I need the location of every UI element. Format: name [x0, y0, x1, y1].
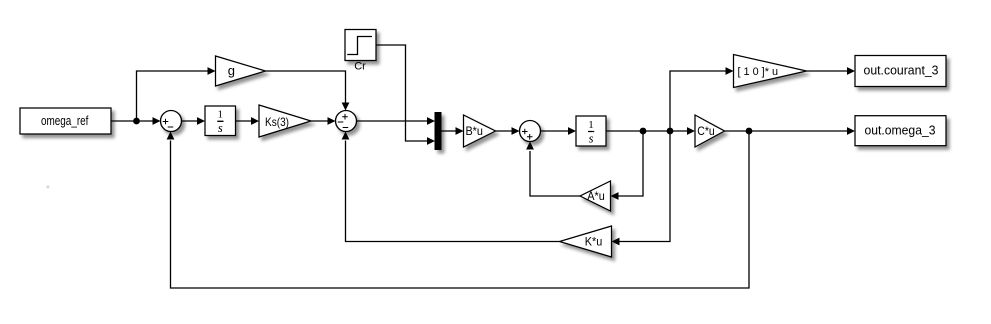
svg-text:s: s: [218, 121, 223, 135]
svg-text:1: 1: [218, 109, 224, 121]
svg-text:1: 1: [588, 119, 594, 131]
svg-text:Ks(3): Ks(3): [265, 115, 289, 129]
svg-text:out.courant_3: out.courant_3: [864, 63, 939, 78]
svg-text:s: s: [589, 131, 594, 145]
svg-text:[ 1 0 ]* u: [ 1 0 ]* u: [738, 66, 779, 78]
svg-text:out.omega_3: out.omega_3: [865, 122, 936, 137]
svg-text:Cr: Cr: [354, 61, 366, 73]
svg-text:K*u: K*u: [585, 236, 603, 248]
svg-text:omega_ref: omega_ref: [41, 114, 89, 128]
svg-text:A*u: A*u: [587, 191, 605, 203]
svg-text:g: g: [228, 63, 235, 78]
svg-text:B*u: B*u: [465, 126, 483, 138]
svg-text:C*u: C*u: [697, 126, 715, 138]
